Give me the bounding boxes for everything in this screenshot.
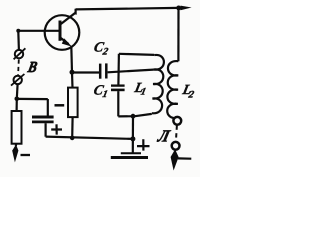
wire from bias node to C3: [17, 98, 48, 100]
ground bar lower: [111, 156, 148, 159]
resistor R2 bottom lead: [71, 117, 74, 138]
node rail to ground dot: [130, 136, 135, 141]
node bias junction dot: [14, 97, 19, 102]
node base corner dot: [16, 29, 20, 33]
svg-text:1: 1: [101, 89, 108, 100]
wire tank to ground: [132, 116, 134, 153]
node tank bottom dot: [131, 114, 136, 119]
dashed plug link: [176, 125, 177, 141]
plug arrow: [171, 149, 179, 170]
wire tank bottom link: [118, 114, 152, 117]
resistor R2 top lead: [71, 73, 74, 88]
ground bar upper: [121, 152, 141, 154]
dashed link of switch B: [17, 60, 20, 76]
resistor R1 body: [12, 111, 22, 144]
resistor R1 top lead: [16, 99, 18, 111]
label L (plug): [155, 126, 172, 145]
label minus (left battery): [21, 154, 31, 156]
wire top supply rail: [76, 8, 179, 9]
terminal contact B2 lower circle: [14, 76, 22, 84]
jack contact upper circle: [173, 117, 181, 125]
wire emitter lead down: [70, 46, 73, 73]
wire L2 top lead: [177, 8, 179, 61]
node emitter junction dot: [70, 70, 75, 75]
wire tank top link: [119, 54, 154, 55]
battery minus arrow (left): [12, 144, 18, 162]
resistor R1 bottom lead: [15, 144, 18, 146]
plug arrow tick: [178, 157, 192, 160]
wire base lead: [18, 30, 58, 32]
capacitor C3 electrolytic plates: [32, 116, 54, 119]
transistor V1 collector: [61, 9, 76, 24]
label minus (C3): [55, 104, 65, 107]
transistor V1 body circle: [45, 15, 80, 50]
transistor V1 emitter with arrowhead: [61, 38, 69, 44]
label L2: [180, 82, 197, 101]
resistor R2 body: [68, 88, 78, 118]
label C1: [92, 82, 110, 100]
label plus (ground): [137, 139, 150, 150]
svg-text:1: 1: [140, 87, 147, 98]
capacitor C3 bottom lead: [44, 123, 46, 137]
label B (switch): [25, 59, 39, 76]
node R2 to rail dot: [70, 136, 75, 141]
inductor L1 coil: [152, 55, 164, 113]
wire emitter to C2: [72, 71, 99, 73]
node supply junction dot: [176, 6, 181, 11]
transistor V1 base bar: [59, 21, 62, 41]
wire L2 bottom lead: [176, 116, 178, 119]
wire below switch: [16, 84, 19, 99]
svg-text:В: В: [25, 59, 39, 76]
label L1: [132, 80, 149, 98]
capacitor C1 plates: [111, 84, 125, 86]
wire tank left branch upper: [117, 54, 120, 85]
jack contact lower circle: [172, 142, 180, 150]
wire bottom rail: [46, 137, 133, 139]
label plus (C3): [51, 124, 62, 134]
wire base column down: [17, 31, 20, 50]
label C2: [92, 40, 111, 58]
inductor L2 coil: [167, 61, 178, 118]
wire tank left branch lower: [117, 91, 119, 116]
capacitor C2 plates: [99, 64, 102, 79]
terminal contact B1 upper circle: [15, 50, 23, 58]
wire C2 to coil tap (crosses C1 branch): [108, 70, 154, 73]
supply arrow (plus rail pointer): [181, 6, 192, 11]
svg-text:Л: Л: [155, 126, 172, 145]
terminal contact B2 slash: [11, 74, 24, 86]
capacitor C3 top lead: [47, 99, 49, 116]
terminal contact B1 slash: [14, 48, 26, 59]
